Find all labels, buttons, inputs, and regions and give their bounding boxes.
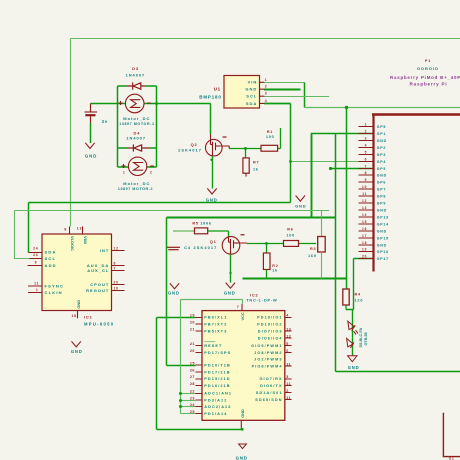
ground battery	[85, 143, 94, 149]
svg-text:28: 28	[190, 382, 195, 386]
svg-text:SCL: SCL	[246, 94, 257, 99]
svg-text:GND: GND	[377, 208, 387, 212]
svg-text:1: 1	[36, 288, 39, 292]
svg-text:SD65/SDN: SD65/SDN	[255, 398, 282, 402]
wire VIN vertical	[304, 83, 306, 108]
svg-text:ADC1/AN1: ADC1/AN1	[204, 392, 232, 396]
svg-text:120: 120	[355, 298, 364, 302]
svg-text:U1: U1	[214, 87, 221, 92]
wire Q2 source to ground	[212, 156, 214, 189]
wire motor1 row	[118, 103, 211, 105]
wire SCL tap to GPIO	[331, 168, 373, 170]
svg-text:3: 3	[265, 92, 268, 96]
svg-text:PD17/SPS: PD17/SPS	[204, 351, 231, 355]
svg-text:21: 21	[190, 328, 195, 332]
wire VIN from BMP180 pin1	[264, 82, 305, 84]
svg-text:GIO5/PWM1: GIO5/PWM1	[251, 344, 282, 348]
component S1 partial box	[443, 413, 460, 457]
svg-text:2: 2	[150, 171, 152, 175]
wire vertical x346 5V branch	[346, 108, 348, 290]
svg-text:1: 1	[365, 123, 368, 127]
wire vertical x335 to LED row	[335, 134, 337, 372]
wire GND stub from BMP180 pin2	[264, 89, 301, 91]
svg-text:21: 21	[190, 342, 195, 346]
svg-text:GP9: GP9	[377, 201, 386, 205]
junction ADC pin24	[179, 405, 182, 408]
svg-text:15: 15	[362, 220, 367, 224]
wire SDA from BMP180 pin4	[264, 103, 291, 105]
svg-text:JO2/PWM3: JO2/PWM3	[254, 358, 282, 362]
svg-text:GND: GND	[295, 204, 306, 209]
wire motor2 row	[118, 166, 157, 168]
svg-text:20: 20	[190, 349, 195, 353]
svg-text:GND: GND	[71, 349, 83, 354]
svg-text:GND: GND	[206, 198, 218, 203]
svg-text:R3: R3	[310, 247, 316, 251]
svg-text:PD19/IO2: PD19/IO2	[257, 323, 282, 327]
wire R2 top lead	[266, 244, 268, 254]
svg-text:SD1A/S01: SD1A/S01	[256, 391, 283, 395]
svg-text:11: 11	[286, 382, 291, 386]
wire bridge right vertical	[156, 86, 158, 167]
svg-text:26: 26	[190, 368, 195, 372]
svg-text:PB5/XT3: PB5/XT3	[204, 330, 227, 334]
wire SDA down-left vertical	[28, 203, 30, 253]
svg-text:Raspberry Pi: Raspberry Pi	[410, 81, 448, 86]
svg-text:ADC2/A13: ADC2/A13	[204, 405, 231, 409]
svg-text:Motor_DC: Motor_DC	[123, 116, 150, 121]
svg-text:2: 2	[365, 130, 368, 134]
wire 3V3 left vertical to VLOGIC	[70, 39, 72, 227]
connector P1 box top edge	[372, 113, 460, 115]
svg-text:FSYNC: FSYNC	[45, 284, 65, 289]
svg-text:18: 18	[72, 314, 77, 318]
svg-text:GND: GND	[236, 456, 248, 460]
svg-text:10: 10	[114, 287, 119, 291]
svg-text:R4: R4	[355, 292, 362, 296]
svg-text:17: 17	[362, 234, 367, 238]
svg-text:PD17/21B: PD17/21B	[204, 370, 230, 374]
svg-text:INT: INT	[100, 248, 109, 253]
svg-text:12: 12	[114, 246, 119, 250]
svg-text:1: 1	[123, 171, 125, 175]
ground Q2	[207, 188, 216, 194]
svg-text:1N4007: 1N4007	[126, 72, 146, 77]
svg-text:23: 23	[190, 397, 195, 401]
junction bridge-Q2	[155, 102, 158, 105]
svg-text:2SK4017: 2SK4017	[194, 245, 218, 250]
svg-text:GP14: GP14	[377, 222, 389, 226]
svg-text:6: 6	[114, 262, 117, 266]
junction MCU ground	[241, 428, 244, 431]
svg-text:SCL: SCL	[45, 256, 57, 261]
ground net y195	[296, 196, 305, 202]
transistor Q2 2SK4017	[206, 134, 230, 156]
svg-text:13: 13	[286, 328, 291, 332]
resistor R5 100k	[195, 228, 208, 234]
svg-text:PB7/XT2: PB7/XT2	[204, 323, 227, 327]
wire ADC bus vertical	[180, 300, 182, 414]
svg-text:GP5: GP5	[377, 125, 386, 129]
svg-text:GND: GND	[168, 291, 180, 296]
svg-text:4: 4	[365, 144, 368, 148]
svg-text:13: 13	[362, 206, 367, 210]
svg-text:160: 160	[308, 254, 317, 258]
wire Q1 source to ground	[230, 254, 232, 282]
wire R7 top lead	[245, 149, 247, 158]
svg-text:JO8/PWM2: JO8/PWM2	[254, 351, 282, 355]
svg-text:13897 MOTOR-2: 13897 MOTOR-2	[118, 187, 153, 191]
svg-text:ODROID: ODROID	[417, 66, 439, 71]
junction Q2 source pin	[210, 159, 212, 161]
svg-text:GND: GND	[85, 153, 97, 158]
svg-text:3v: 3v	[102, 119, 108, 124]
svg-text:R1: R1	[267, 130, 273, 134]
svg-text:Motor_DC: Motor_DC	[123, 181, 150, 186]
svg-text:12: 12	[362, 199, 367, 203]
wire SCL from BMP180 pin3	[264, 96, 329, 98]
svg-text:GP5: GP5	[377, 167, 386, 171]
junction gate-R2	[265, 242, 268, 245]
MCU RESET overline	[204, 341, 215, 343]
wire R3 bottom lead	[321, 252, 323, 279]
svg-text:2: 2	[286, 389, 288, 393]
diode D4	[127, 144, 149, 151]
svg-text:20: 20	[190, 321, 195, 325]
wire diode D3 row	[118, 85, 157, 87]
wire battery to bridge	[91, 103, 118, 105]
ground flag LED	[348, 356, 357, 362]
svg-text:GP13: GP13	[377, 215, 389, 219]
transistor Q1 2SK4017	[222, 235, 247, 255]
svg-text:DIO7/IO3: DIO7/IO3	[258, 330, 283, 334]
ground MPU	[72, 341, 81, 347]
junction SDA tap dot	[289, 160, 292, 163]
wire diode D4 row	[118, 147, 157, 149]
svg-text:100: 100	[266, 135, 275, 139]
IMU IC1 MPU-6050 body	[42, 234, 112, 311]
svg-text:P1: P1	[425, 59, 431, 63]
svg-text:PD1/A14: PD1/A14	[204, 412, 227, 416]
svg-text:R6: R6	[287, 227, 293, 231]
MCU left pin stubs	[196, 318, 203, 414]
svg-text:GP6: GP6	[377, 180, 386, 184]
svg-text:2: 2	[265, 85, 268, 89]
svg-text:GND: GND	[245, 87, 257, 92]
svg-text:PD18/IO1: PD18/IO1	[257, 316, 282, 320]
svg-text:S1: S1	[449, 456, 455, 460]
svg-text:23: 23	[33, 253, 38, 257]
svg-text:GND: GND	[76, 300, 81, 309]
svg-text:7: 7	[365, 165, 368, 169]
svg-text:100: 100	[286, 234, 295, 238]
svg-text:TNC-L-DP-W: TNC-L-DP-W	[246, 298, 277, 303]
svg-text:6: 6	[365, 158, 368, 162]
MPU-6050 left pin stubs	[28, 253, 43, 293]
wire R3 top lead	[321, 211, 323, 237]
connector P1 box left edge	[372, 115, 374, 272]
wire horizontal y371 to right edge	[336, 371, 460, 373]
svg-text:PD3/A12: PD3/A12	[204, 399, 227, 403]
wire MCU pin24 tap	[181, 406, 196, 408]
svg-text:4: 4	[265, 99, 268, 103]
svg-text:100k: 100k	[200, 221, 212, 225]
wire GPIO to LED	[346, 259, 372, 310]
svg-text:GP1: GP1	[377, 132, 386, 136]
wire SDA horizontal to MPU	[29, 202, 291, 204]
wire SCL down-left vertical	[15, 211, 30, 259]
ground flag MCU	[239, 444, 247, 449]
svg-text:SDA: SDA	[246, 101, 257, 106]
wire MCU pin19 net	[157, 318, 243, 430]
wire MCU pin22 tap	[181, 393, 196, 395]
svg-text:GP7: GP7	[377, 187, 386, 191]
battery BAT1 3v	[90, 104, 92, 112]
svg-text:Q2: Q2	[191, 142, 198, 147]
svg-text:11: 11	[286, 396, 291, 400]
svg-text:1N4007: 1N4007	[126, 136, 146, 141]
svg-text:GP4: GP4	[377, 160, 386, 164]
MPU-6050 top pin stubs	[70, 227, 83, 235]
svg-text:GP3: GP3	[377, 153, 386, 157]
svg-text:GP15: GP15	[377, 236, 389, 240]
svg-text:GND: GND	[377, 173, 387, 177]
wire ground rail y278	[243, 278, 347, 280]
wire Q2 gate row	[229, 128, 281, 149]
svg-text:SS-BLC-FA: SS-BLC-FA	[359, 327, 363, 347]
svg-text:1k: 1k	[253, 168, 259, 172]
resistor R2 1k	[263, 253, 270, 270]
svg-text:BMP180: BMP180	[199, 94, 221, 99]
svg-text:20: 20	[114, 280, 119, 284]
svg-text:GIO7/RX: GIO7/RX	[259, 377, 282, 381]
svg-text:3: 3	[286, 375, 288, 379]
svg-text:OTB-55: OTB-55	[364, 332, 368, 345]
junction Q1 source pin	[229, 272, 231, 274]
svg-text:VDD: VDD	[83, 236, 88, 244]
svg-text:12: 12	[286, 335, 291, 339]
MPU-6050 bottom pin stub	[77, 311, 79, 319]
wire MCU VCC net	[181, 300, 243, 304]
resistor R6 100	[284, 241, 299, 247]
wire SDA tap to GPIO	[291, 161, 373, 163]
svg-text:GP8: GP8	[377, 194, 386, 198]
svg-text:11: 11	[362, 192, 367, 196]
svg-text:PD16/21B: PD16/21B	[204, 384, 230, 388]
wire R5 left lead	[173, 230, 195, 232]
junction SCL tap dot	[329, 167, 332, 170]
svg-text:C4: C4	[184, 245, 191, 250]
junction gate-R7	[244, 147, 247, 150]
svg-text:24: 24	[33, 246, 38, 250]
svg-text:1: 1	[265, 78, 268, 82]
wire bridge left vertical	[117, 86, 119, 167]
svg-text:GND: GND	[377, 243, 387, 247]
ground capacitor net	[170, 283, 179, 289]
connector P1 pin stubs	[359, 127, 374, 259]
motor M1	[119, 94, 152, 113]
wire Q1 gate row	[247, 243, 316, 245]
svg-text:11: 11	[286, 363, 291, 367]
svg-text:GND: GND	[377, 229, 387, 233]
svg-text:CLKIN: CLKIN	[45, 290, 63, 295]
svg-text:VLOGIC: VLOGIC	[70, 236, 75, 251]
MCU top pin stub	[241, 304, 243, 311]
svg-text:MPU-6050: MPU-6050	[84, 321, 114, 326]
svg-text:6: 6	[286, 349, 288, 353]
svg-text:10: 10	[362, 185, 367, 189]
wire ground rail y217	[167, 217, 336, 219]
svg-text:2SK4017: 2SK4017	[178, 148, 202, 153]
svg-text:Q1: Q1	[210, 239, 217, 244]
svg-text:18: 18	[362, 241, 367, 245]
svg-text:7: 7	[114, 267, 117, 271]
wire SDA vertical	[290, 104, 292, 203]
MCU right pin stubs	[285, 318, 292, 400]
svg-text:19: 19	[362, 248, 367, 252]
svg-text:PD15/21D: PD15/21D	[204, 377, 230, 381]
junction ADC pin22	[179, 392, 182, 395]
svg-text:GND: GND	[348, 365, 360, 370]
MPU-6050 right pin stubs	[112, 251, 125, 291]
svg-text:11: 11	[34, 282, 39, 286]
resistor R1 100	[261, 145, 278, 151]
capacitor C4 plates	[167, 246, 181, 248]
svg-text:R5: R5	[192, 221, 198, 225]
wire R4 bottom lead	[345, 305, 347, 310]
LED D1	[347, 321, 358, 348]
svg-text:1k: 1k	[272, 268, 278, 272]
wire Q2 drain vertical	[210, 104, 212, 135]
wire SCL horizontal to MPU	[15, 210, 330, 212]
svg-text:REGOUT: REGOUT	[86, 288, 109, 293]
wire vertical x311 to ground rail	[311, 135, 313, 218]
svg-text:7: 7	[237, 305, 240, 309]
wire MCU pin23 tap	[181, 400, 196, 402]
svg-text:13897 MOTOR-1: 13897 MOTOR-1	[119, 122, 154, 126]
wire 3V3 top horizontal	[71, 38, 460, 40]
wire LED cathode to ground	[352, 310, 354, 356]
svg-text:16: 16	[362, 227, 367, 231]
svg-text:VIN: VIN	[248, 80, 258, 85]
svg-text:SDA: SDA	[45, 250, 57, 255]
svg-text:9: 9	[365, 178, 368, 182]
MCU bottom pin stub	[240, 420, 242, 428]
svg-text:ADD: ADD	[45, 263, 57, 268]
junction ADC pin23	[179, 399, 182, 402]
MCU IC2 body	[202, 311, 285, 421]
svg-text:CPOUT: CPOUT	[90, 282, 109, 287]
diode D3	[127, 82, 146, 89]
resistor R4 120	[343, 289, 349, 305]
resistor R7 1k	[243, 158, 249, 173]
svg-text:GND: GND	[224, 291, 236, 296]
svg-text:IC1: IC1	[84, 315, 93, 320]
svg-text:20: 20	[362, 255, 367, 259]
svg-text:R7: R7	[253, 161, 259, 165]
svg-text:9: 9	[35, 260, 38, 264]
svg-text:Raspberry PiMod B+_40Pin: Raspberry PiMod B+_40Pin	[390, 75, 460, 80]
junction 5V dot	[345, 106, 348, 109]
wire MCU pin15 net	[167, 365, 196, 367]
wire R2 bottom lead	[266, 270, 268, 279]
svg-text:GND: GND	[240, 409, 245, 418]
svg-text:GP16: GP16	[377, 250, 389, 254]
svg-text:DIO6/TX: DIO6/TX	[260, 384, 282, 388]
ground Q1	[226, 283, 235, 289]
svg-text:8: 8	[365, 171, 368, 175]
svg-text:AUX_CL: AUX_CL	[87, 268, 109, 273]
wire R5 to Q1 drain	[208, 231, 229, 237]
svg-text:8: 8	[64, 228, 67, 232]
svg-text:GP17: GP17	[377, 257, 389, 261]
svg-text:13: 13	[77, 227, 82, 231]
svg-text:GND: GND	[377, 139, 387, 143]
svg-text:3: 3	[365, 137, 368, 141]
svg-text:PB6/XL1: PB6/XL1	[204, 316, 227, 320]
svg-text:DIO6/IO4: DIO6/IO4	[258, 337, 283, 341]
wire battery to ground	[90, 123, 92, 143]
svg-text:14: 14	[362, 213, 367, 217]
sensor U1 BMP180 body	[224, 76, 260, 109]
wire MCU pin25 tap	[181, 413, 196, 415]
svg-text:PIO8/PWM4: PIO8/PWM4	[252, 365, 283, 369]
svg-text:27: 27	[190, 375, 195, 379]
svg-text:D3: D3	[132, 66, 139, 71]
wire net to GPIO pin2	[312, 134, 373, 135]
wire x167 vertical	[166, 218, 168, 366]
motor M2	[122, 157, 155, 175]
svg-text:VCC: VCC	[240, 312, 245, 320]
wire 5V long horizontal to right edge	[305, 107, 460, 109]
BMP180 pin stubs	[260, 82, 265, 103]
svg-text:RESET: RESET	[204, 344, 222, 348]
svg-text:5: 5	[286, 342, 288, 346]
svg-text:PD10/T1B: PD10/T1B	[204, 363, 231, 367]
svg-text:5: 5	[365, 151, 368, 155]
svg-text:GP2: GP2	[377, 146, 386, 150]
